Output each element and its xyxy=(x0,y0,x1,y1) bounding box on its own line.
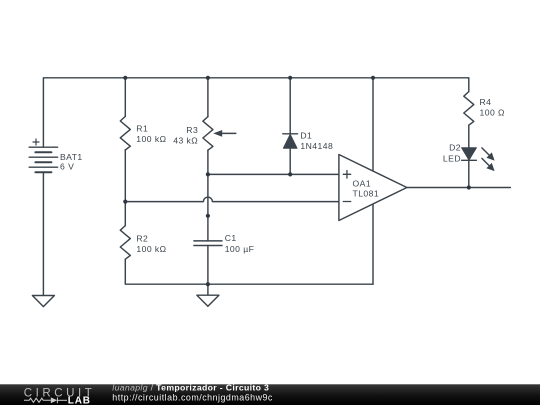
battery BAT1 xyxy=(29,139,57,172)
resistor R4 xyxy=(464,92,474,126)
wire op-amp V+ and V- power xyxy=(372,78,374,284)
node C1 ground xyxy=(206,282,210,286)
svg-text:OA1: OA1 xyxy=(353,179,372,189)
op-amp plus marker xyxy=(343,171,351,179)
svg-text:R3: R3 xyxy=(186,125,198,135)
svg-text:http://circuitlab.com/chnjgdma: http://circuitlab.com/chnjgdma6hw9c xyxy=(112,393,273,403)
svg-text:R4: R4 xyxy=(480,97,492,107)
wire C1 bottom to rail xyxy=(207,246,209,296)
wire D2 to output xyxy=(468,160,470,187)
diode D1 xyxy=(283,134,298,148)
logo symbol resistor+diode wire xyxy=(24,397,67,403)
svg-text:R2: R2 xyxy=(136,233,148,243)
resistor R2 xyxy=(120,226,130,260)
wire top rail +6V xyxy=(43,78,468,147)
ground battery xyxy=(32,296,54,307)
wire D1 top xyxy=(289,78,291,134)
op-amp minus marker xyxy=(343,201,351,203)
wire output xyxy=(407,187,511,189)
svg-text:TL081: TL081 xyxy=(353,188,380,198)
node R1-R2 minus xyxy=(123,200,127,204)
svg-text:luanaplg / Temporizador - Circ: luanaplg / Temporizador - Circuito 3 xyxy=(112,383,269,393)
svg-text:LAB: LAB xyxy=(68,395,91,405)
svg-text:LED: LED xyxy=(443,154,461,164)
node D1 bottom xyxy=(288,172,292,176)
svg-text:C1: C1 xyxy=(225,233,237,243)
LED D2 arrows xyxy=(482,148,495,171)
svg-text:R1: R1 xyxy=(136,124,148,134)
wire R1 top xyxy=(124,78,126,117)
svg-text:6 V: 6 V xyxy=(60,162,74,172)
wire plus input xyxy=(208,173,339,175)
wire R4 to D2 xyxy=(468,125,470,148)
node R3 top xyxy=(206,76,210,80)
wire R2 bottom and ground rail xyxy=(125,259,373,284)
resistor R1 xyxy=(120,116,130,150)
wire minus input with hop xyxy=(125,197,339,202)
node op-amp V+ xyxy=(371,76,375,80)
svg-text:1N4148: 1N4148 xyxy=(300,141,333,151)
svg-text:D1: D1 xyxy=(300,131,312,141)
footer bar xyxy=(0,383,540,405)
node output D2 xyxy=(467,185,471,189)
capacitor C1 xyxy=(194,240,222,242)
svg-text:100 kΩ: 100 kΩ xyxy=(136,244,166,254)
LED D2 xyxy=(462,148,477,161)
node R1 top xyxy=(123,76,127,80)
wire D1 bottom xyxy=(289,148,291,174)
wire R1 bottom to R2 top xyxy=(124,150,126,226)
node R3 bottom xyxy=(206,172,210,176)
potentiometer R3 xyxy=(203,117,213,151)
node D1 top xyxy=(288,76,292,80)
R3 wiper arrow xyxy=(213,130,236,137)
svg-text:100 µF: 100 µF xyxy=(225,244,255,254)
wire R3 branch vertical xyxy=(207,78,209,117)
op-amp OA1 xyxy=(339,155,407,221)
svg-text:D2: D2 xyxy=(449,143,461,153)
wire battery negative to ground xyxy=(42,172,44,295)
ground C1 xyxy=(197,295,219,306)
svg-text:43 kΩ: 43 kΩ xyxy=(173,135,198,145)
node wire joint xyxy=(206,214,210,218)
wire node to C1 xyxy=(207,174,209,241)
svg-text:100 Ω: 100 Ω xyxy=(480,107,506,117)
wire R3 bottom to node xyxy=(207,150,209,174)
svg-text:100 kΩ: 100 kΩ xyxy=(136,134,166,144)
